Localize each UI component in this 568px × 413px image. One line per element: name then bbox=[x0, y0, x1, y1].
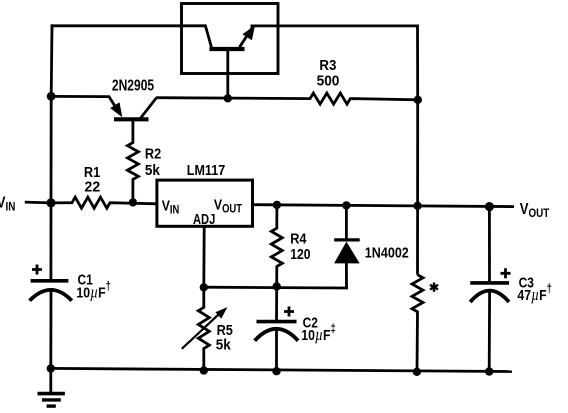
capacitor C3 bottom lead bbox=[488, 292, 491, 372]
transistor Q1 base bar bbox=[209, 47, 244, 51]
transistor Q2 emitter arrowhead bbox=[110, 102, 122, 117]
asterisk Rstar bbox=[430, 283, 438, 292]
node dot R2 bottom bbox=[129, 198, 137, 206]
wire ADJ horizontal node bbox=[204, 286, 348, 290]
wire left rail bbox=[51, 24, 52, 280]
plus sign C2 bbox=[284, 307, 294, 317]
ground bar 3 bbox=[47, 404, 56, 407]
node dot R4 top bbox=[273, 201, 281, 209]
label 10uF ddagger C2 bbox=[301, 322, 336, 344]
resistor R5 arrowhead bbox=[215, 307, 227, 319]
capacitor C2 bottom plate arc bbox=[255, 329, 298, 341]
plus sign C3 bbox=[501, 268, 511, 278]
capacitor C1 bottom plate arc bbox=[30, 290, 72, 301]
resistor R4 branch bbox=[271, 205, 282, 287]
capacitor C2 bottom lead bbox=[275, 330, 278, 371]
resistor R5 wiper arrow shaft bbox=[182, 311, 223, 349]
node dot C3 bottom bbox=[485, 367, 493, 375]
wire top right (Q1 emitter to right rail) bbox=[251, 24, 418, 27]
svg-text:5k: 5k bbox=[216, 337, 232, 354]
wire top horizontal bbox=[51, 24, 182, 27]
transistor Q2 2N2905 base bar bbox=[114, 117, 149, 121]
ground stub bbox=[49, 368, 52, 392]
transistor Q1 base lead wire bbox=[226, 48, 229, 99]
svg-text:R2: R2 bbox=[145, 146, 161, 163]
svg-text:2N2905: 2N2905 bbox=[112, 78, 154, 95]
transistor Q1 collector lead bbox=[180, 26, 211, 48]
transistor Q1 emitter lead bbox=[240, 27, 253, 47]
resistor R5 branch bbox=[198, 287, 209, 370]
svg-text:LM117: LM117 bbox=[187, 162, 225, 179]
pass transistor box bbox=[182, 4, 279, 74]
wire output rail bbox=[253, 205, 515, 207]
node dot Q1 base junction bbox=[224, 94, 232, 102]
label VOUT main bbox=[520, 201, 550, 220]
capacitor C3 bottom plate arc bbox=[470, 291, 509, 302]
node dot C3 top bbox=[485, 202, 494, 211]
transistor Q2 base lead and resistor R2 bbox=[127, 120, 138, 203]
svg-text:500: 500 bbox=[317, 72, 340, 89]
node dot ADJ junction bbox=[200, 283, 208, 291]
node dot left rail / Q2 emitter bbox=[47, 92, 56, 101]
pin label VIN bbox=[162, 197, 180, 216]
node dot R5 bottom bbox=[200, 366, 208, 374]
wire right vertical rail bbox=[416, 25, 419, 275]
resistor Rstar zigzag bbox=[412, 275, 423, 372]
capacitor C2 top lead bbox=[275, 287, 278, 322]
diode D1 cathode bar bbox=[334, 238, 360, 241]
capacitor C3 top plate bbox=[470, 281, 509, 285]
wire ADJ lead bbox=[202, 226, 205, 287]
diode D1 bottom lead bbox=[345, 263, 348, 290]
label 10uF dagger C1 bbox=[76, 280, 111, 302]
node dot diode top bbox=[342, 201, 350, 209]
op-amp U1 LM117 regulator box bbox=[157, 180, 253, 226]
svg-text:5k: 5k bbox=[145, 162, 161, 179]
wire left rail lower (below C1) bbox=[49, 290, 52, 370]
plus sign C1 bbox=[32, 265, 42, 275]
transistor Q2 collector lead bbox=[141, 98, 157, 119]
diode D1 triangle bbox=[334, 242, 360, 264]
wire collector rail with resistor R3 bbox=[156, 93, 418, 104]
svg-text:ADJ: ADJ bbox=[193, 212, 215, 228]
svg-text:1N4002: 1N4002 bbox=[365, 245, 409, 262]
node dot R3 right junction bbox=[414, 96, 422, 104]
capacitor C3 top lead bbox=[488, 207, 491, 283]
capacitor C2 top plate bbox=[257, 320, 297, 324]
capacitor C1 top plate bbox=[31, 279, 69, 283]
ground bar 2 bbox=[42, 398, 61, 401]
label 47uF dagger C3 bbox=[517, 283, 552, 305]
wire Q2 emitter from left rail bbox=[51, 96, 120, 113]
node dot Rstar bottom bbox=[413, 368, 421, 376]
wire bottom rail bbox=[51, 368, 512, 371]
svg-text:22: 22 bbox=[85, 179, 101, 196]
transistor Q1 emitter arrowhead bbox=[243, 25, 256, 40]
node dot right rail mid bbox=[413, 202, 421, 210]
label VIN main bbox=[0, 194, 15, 214]
node dot ground junction bbox=[47, 364, 55, 372]
node dot VIN junction bbox=[46, 198, 55, 207]
wire input rail with resistor R1 bbox=[25, 197, 157, 208]
pin label VOUT bbox=[214, 196, 243, 216]
diode D1 top lead bbox=[345, 205, 348, 240]
svg-text:120: 120 bbox=[290, 246, 310, 263]
node dot R4 bottom bbox=[273, 282, 281, 290]
ground bar 1 bbox=[38, 392, 65, 396]
node dot C2 bottom bbox=[272, 367, 280, 375]
